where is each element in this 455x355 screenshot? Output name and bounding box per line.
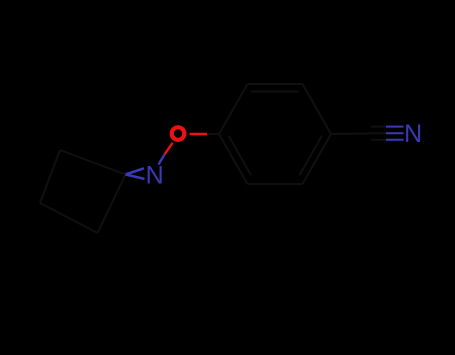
Cring-Cnitrile single bond bbox=[331, 133, 368, 136]
cyclobutylidene ring bond C4-C1 bbox=[98, 175, 126, 234]
nitrile triple bond bottom line gray half bbox=[371, 139, 386, 141]
N-O bond blue half bbox=[159, 155, 165, 165]
svg-text:N: N bbox=[404, 120, 422, 148]
cyclobutylidene ring bond C1-C2 bbox=[60, 150, 126, 175]
cyclobutylidene ring bond C3-C4 bbox=[40, 203, 98, 233]
benzene edge BL-L bbox=[219, 134, 248, 184]
nitrile triple bond top line gray half bbox=[371, 126, 386, 128]
benzene aromatic inner line right-lower bbox=[300, 136, 323, 176]
benzene edge R-BR bbox=[303, 134, 332, 184]
benzene edge TL-TR bbox=[248, 83, 303, 85]
svg-text:N: N bbox=[146, 162, 164, 190]
C=N double bond lower stroke (blue) bbox=[126, 175, 145, 179]
nitrile triple bond top line blue half bbox=[386, 126, 404, 128]
nitrile triple bond middle line blue half bbox=[386, 132, 404, 134]
C=N double bond upper stroke (blue) bbox=[126, 168, 145, 174]
benzene aromatic inner line left-lower bbox=[229, 136, 252, 176]
nitrile triple bond bottom line blue half bbox=[386, 139, 404, 141]
benzene edge BR-BL bbox=[248, 183, 303, 185]
cyclobutylidene ring bond C2-C3 bbox=[40, 150, 60, 203]
O-Cring bond red half bbox=[190, 133, 208, 135]
benzene edge TR-R bbox=[303, 84, 332, 134]
nitrile triple bond middle line gray half bbox=[368, 132, 386, 134]
N-O bond red half bbox=[165, 143, 173, 155]
O-Cring bond gray half bbox=[207, 133, 219, 135]
benzene edge L-TL bbox=[219, 84, 248, 134]
O atom label bbox=[172, 127, 185, 140]
benzene aromatic inner line top bbox=[251, 91, 299, 93]
